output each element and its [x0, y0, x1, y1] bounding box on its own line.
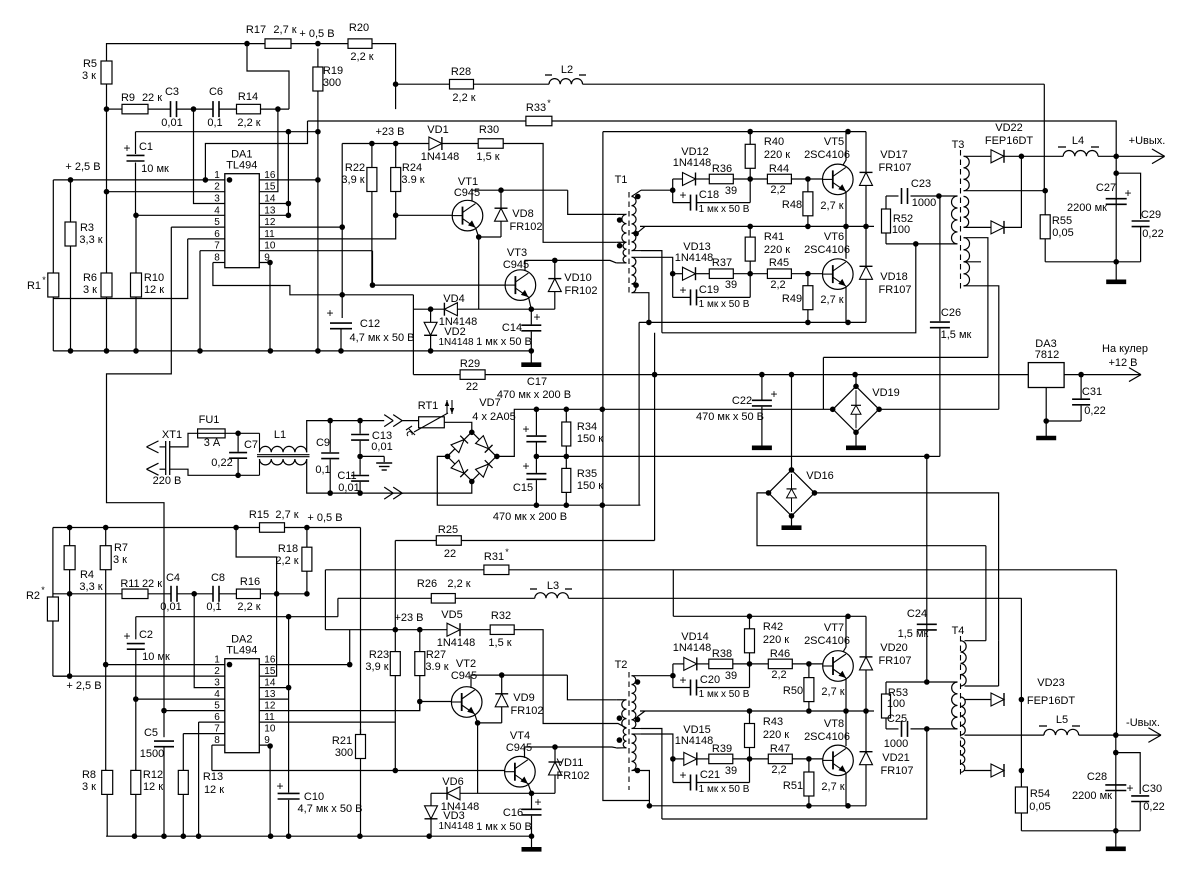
wire pin6 row: [188, 238, 225, 240]
svg-text:R7: R7: [114, 542, 128, 554]
wire VD5-R32: [460, 629, 490, 631]
svg-text:R27: R27: [426, 649, 446, 661]
wire row A to RT1: [330, 420, 384, 422]
svg-text:2,7 к: 2,7 к: [273, 24, 296, 36]
T2 winding left W1: [622, 700, 627, 728]
wire T4 W2 top lead: [965, 699, 992, 701]
junction: [428, 348, 434, 354]
diode VD13: [673, 241, 714, 280]
junction: [68, 348, 74, 354]
resistor R48: [782, 179, 844, 226]
junction: [315, 41, 321, 47]
wire R25 row right: [461, 540, 654, 542]
capacitor C15: [513, 456, 546, 505]
svg-text:0,22: 0,22: [1143, 801, 1164, 813]
diode VD15: [673, 724, 713, 765]
wire T1 W1 top entry: [616, 213, 626, 215]
wire VT1 em down: [478, 237, 480, 309]
capacitor C10: [276, 779, 362, 836]
wire L2 row: [396, 83, 450, 85]
svg-text:R8: R8: [82, 769, 96, 781]
wire C3-C6: [177, 108, 214, 110]
svg-text:R38: R38: [712, 648, 732, 660]
svg-text:3 А: 3 А: [204, 437, 221, 449]
svg-text:R25: R25: [438, 524, 458, 536]
capacitor C6: [207, 86, 223, 129]
svg-text:VD4: VD4: [443, 293, 464, 305]
wire R26 row: [338, 597, 431, 599]
T2 winding left W2: [623, 728, 626, 748]
wire pin10 row: [259, 250, 372, 252]
svg-text:1N4148: 1N4148: [421, 151, 460, 163]
wire L3 out: [568, 597, 1021, 599]
fuse FU1: [198, 414, 226, 449]
svg-text:VD10: VD10: [564, 272, 592, 284]
svg-text:300: 300: [335, 747, 353, 759]
wire L4 out: [1098, 155, 1165, 157]
wire T2 W1 top entry: [616, 699, 626, 701]
junction: [1078, 372, 1084, 378]
wire VD12 junction vert: [672, 179, 674, 203]
T4 right winding W0: [961, 641, 986, 686]
svg-text:3: 3: [214, 678, 220, 689]
svg-text:+ 2,5 В: + 2,5 В: [65, 161, 100, 173]
wire driver bottom rail: [639, 321, 866, 323]
wire R31 to T2 rail: [672, 570, 674, 617]
svg-text:VD19: VD19: [872, 387, 900, 399]
svg-text:220 к: 220 к: [763, 634, 789, 646]
wire R7-R8 junction: [106, 769, 108, 771]
svg-text:12: 12: [264, 217, 276, 228]
wire T2 B bottom path: [641, 729, 662, 820]
svg-text:R42: R42: [763, 621, 783, 633]
wire VD13 junction vert: [672, 274, 674, 298]
wire VD13-R37: [696, 273, 710, 275]
resistor R5: [82, 58, 112, 84]
svg-text:VD6: VD6: [442, 776, 463, 788]
svg-text:3.9 к: 3.9 к: [401, 174, 424, 186]
capacitor C9: [315, 421, 339, 494]
wire T2 C to VD15 junction: [641, 734, 673, 759]
svg-text:VD20: VD20: [880, 642, 908, 654]
wire VT3 collector: [525, 260, 555, 271]
wire R33 row: [308, 121, 1117, 156]
diode VD5: [437, 609, 476, 649]
junction: [1113, 732, 1119, 738]
T1 winding left W2: [623, 242, 626, 263]
capacitor C21: [673, 759, 750, 795]
wire XT1 bottom lead: [160, 468, 166, 470]
svg-text:C945: C945: [451, 670, 477, 682]
junction: [235, 473, 241, 479]
resistor R20: [348, 22, 374, 63]
junction: [132, 833, 138, 839]
wire L5 out: [1079, 734, 1161, 736]
svg-text:FR102: FR102: [509, 221, 542, 233]
svg-text:+: +: [533, 310, 540, 324]
svg-text:8: 8: [214, 253, 220, 264]
svg-text:1N4148: 1N4148: [675, 735, 714, 747]
svg-text:R16: R16: [240, 576, 260, 588]
svg-text:15: 15: [264, 182, 276, 193]
resistor R40: [745, 132, 790, 179]
capacitor C27: [1067, 182, 1131, 214]
resistor R31: [484, 547, 509, 575]
junction: [275, 106, 281, 112]
svg-text:5: 5: [214, 701, 220, 712]
junction: [529, 791, 535, 797]
wire plus rail down: [1115, 156, 1117, 261]
capacitor C5: [140, 711, 174, 837]
junction: [67, 525, 73, 531]
diode VD11: [549, 747, 590, 793]
svg-text:VT5: VT5: [824, 136, 844, 148]
svg-text:C16: C16: [503, 807, 523, 819]
wire T3 W3 top lead: [964, 238, 988, 358]
svg-text:0,1: 0,1: [206, 601, 221, 613]
junction: [845, 803, 851, 809]
capacitor C1: [123, 132, 169, 175]
wire R28-L2: [474, 83, 549, 85]
svg-text:R51: R51: [783, 780, 803, 792]
svg-text:FR107: FR107: [878, 284, 911, 296]
bridge VD16: [769, 470, 834, 516]
junction: [191, 106, 197, 112]
junction: [806, 708, 812, 714]
wire R20 to R28 corner: [372, 44, 396, 110]
wire L1 top out: [307, 421, 331, 453]
svg-text:C945: C945: [506, 742, 532, 754]
junction: [327, 490, 333, 496]
svg-text:R18: R18: [278, 543, 298, 555]
wire bottom ground rail: [106, 835, 531, 837]
wire VD22b out: [1004, 156, 1021, 227]
junction: [747, 224, 753, 230]
junction: [475, 720, 481, 726]
svg-text:+: +: [326, 306, 333, 320]
resistor R3: [65, 180, 103, 351]
T2 phase dot left 2: [617, 737, 623, 743]
svg-text:R43: R43: [763, 716, 783, 728]
capacitor C17: [522, 409, 546, 456]
svg-text:R2: R2: [26, 590, 40, 602]
svg-text:R34: R34: [577, 421, 597, 433]
bridge rectifier VD7: [447, 397, 515, 481]
wire DA3 out: [1064, 374, 1141, 376]
wire R36 out: [733, 178, 767, 180]
wire R16 out: [260, 593, 307, 595]
resistor R35: [562, 456, 603, 505]
svg-text:C25: C25: [887, 713, 907, 725]
svg-text:16: 16: [264, 170, 276, 181]
svg-text:2,2: 2,2: [770, 279, 785, 291]
junction: [133, 213, 139, 219]
svg-text:39: 39: [725, 765, 737, 777]
svg-text:1 мк х 50 В: 1 мк х 50 В: [699, 689, 750, 700]
wire T2 bottom rail: [649, 805, 866, 807]
svg-text:L5: L5: [1056, 714, 1068, 726]
capacitor C7: [211, 433, 258, 475]
wire L2 out: [583, 83, 1045, 85]
svg-text:39: 39: [725, 670, 737, 682]
transistor VT3: [503, 247, 536, 300]
wire RT1 to bridge: [444, 422, 472, 432]
svg-text:2,7 к: 2,7 к: [821, 686, 844, 698]
svg-text:R22: R22: [345, 162, 365, 174]
inductor L2: [545, 64, 586, 84]
junction: [286, 685, 292, 691]
inductor L3: [530, 580, 572, 598]
arrow +U out: [1152, 149, 1165, 156]
junction: [133, 348, 139, 354]
svg-text:12 к: 12 к: [144, 284, 164, 296]
capacitor C2: [123, 617, 170, 699]
wire C2 top row: [136, 616, 338, 618]
svg-text:1N4148: 1N4148: [437, 637, 476, 649]
resistor R55: [1040, 215, 1074, 262]
wire VD19 top: [855, 375, 857, 387]
junction: [304, 591, 310, 597]
wire upper chassis to RT1: [402, 420, 418, 422]
svg-text:2,2 к: 2,2 к: [452, 92, 475, 104]
svg-text:3,9 к: 3,9 к: [365, 661, 388, 673]
wire T2 mid rail: [640, 710, 874, 712]
svg-text:2,2: 2,2: [771, 669, 786, 681]
svg-text:300: 300: [323, 77, 341, 89]
transistor VT1: [452, 176, 483, 231]
svg-text:2,7 к: 2,7 к: [820, 200, 843, 212]
junction: [924, 454, 930, 460]
arrow -U out: [1148, 728, 1161, 735]
ground +U: [1106, 262, 1126, 282]
wire R31 to minus: [1116, 570, 1118, 735]
diode VD17: [860, 132, 912, 227]
wire VT1 collector: [472, 190, 568, 201]
wire VD6 row: [431, 792, 447, 794]
junction: [133, 696, 139, 702]
svg-text:+23 В: +23 В: [375, 126, 404, 138]
junction: [747, 614, 753, 620]
wire VD15-R39: [697, 758, 709, 760]
resistor R30: [476, 124, 503, 163]
T3 left winding: [952, 196, 958, 244]
wire R14 to pin15: [259, 109, 278, 192]
svg-text:0,1: 0,1: [315, 464, 330, 476]
junction: [181, 833, 187, 839]
svg-text:R47: R47: [770, 743, 790, 755]
svg-text:1 мк х 50 В: 1 мк х 50 В: [476, 821, 532, 833]
svg-text:16: 16: [264, 655, 276, 666]
junction: [227, 177, 233, 183]
resistor R16: [236, 576, 260, 613]
T1 winding left W1: [622, 214, 627, 242]
resistor R6: [83, 272, 112, 351]
junction: [1043, 418, 1049, 424]
wire ground rail: [53, 350, 531, 352]
wire R29 row left: [413, 374, 460, 376]
wire VD4 row: [413, 308, 444, 310]
wire VD16 left: [757, 493, 986, 546]
wire pin16 row: [259, 179, 318, 181]
wire VT2 col to T2: [567, 675, 616, 700]
transistor VT6: [804, 231, 853, 289]
wire VT2 em down: [477, 723, 479, 793]
junction: [393, 768, 399, 774]
junction: [268, 833, 274, 839]
T1 phase dot: [635, 194, 641, 200]
svg-text:4: 4: [214, 689, 220, 700]
capacitor C8: [206, 572, 225, 613]
svg-text:C21: C21: [700, 769, 720, 781]
junction: [843, 224, 849, 230]
wire VT1 base row: [396, 214, 453, 216]
svg-text:VD21: VD21: [882, 752, 910, 764]
junction: [494, 454, 500, 460]
svg-text:R10: R10: [144, 272, 164, 284]
svg-text:R28: R28: [451, 66, 471, 78]
wire minus rail down: [1115, 735, 1117, 831]
capacitor C28: [1072, 771, 1133, 802]
wire DA3 gnd: [1046, 388, 1081, 422]
junction: [104, 189, 110, 195]
wire VT3 base row: [373, 284, 506, 286]
wire R15 out: [285, 527, 361, 529]
wire VD1-R30: [442, 143, 478, 145]
junction: [428, 306, 434, 312]
wire pin14b row: [259, 687, 288, 689]
svg-text:1N4148: 1N4148: [438, 821, 473, 832]
junction: [1113, 828, 1119, 834]
svg-text:FEP16DT: FEP16DT: [985, 135, 1034, 147]
wire R55 feed: [1044, 191, 1046, 215]
capacitor C26: [927, 196, 972, 456]
wire pin5b row: [164, 710, 225, 712]
resistor R52: [882, 196, 914, 244]
svg-text:RT1: RT1: [418, 400, 439, 412]
svg-text:C27: C27: [1096, 182, 1116, 194]
wire T1 B bottom path: [641, 251, 662, 333]
wire R25 row: [395, 540, 436, 542]
transformer T1 core: [628, 192, 630, 294]
wire R25 left leg: [394, 541, 396, 630]
junction: [304, 525, 310, 531]
wire C29 branch: [1116, 173, 1140, 219]
junction: [670, 673, 676, 679]
resistor R28: [450, 66, 476, 104]
junction: [747, 129, 753, 135]
svg-text:+: +: [522, 422, 529, 436]
wire pin14b vertical: [288, 617, 290, 793]
svg-text:0,05: 0,05: [1029, 801, 1050, 813]
wire VT3 col to T1: [555, 260, 617, 263]
svg-text:R50: R50: [783, 685, 803, 697]
resistor R53: [882, 682, 909, 729]
wire L1 bottom out: [307, 459, 331, 493]
svg-text:0,22: 0,22: [211, 457, 232, 469]
wire VT5 collector: [843, 132, 846, 165]
resistor R25: [436, 524, 461, 560]
svg-text:4: 4: [214, 205, 220, 216]
svg-text:470 мк х 200 В: 470 мк х 200 В: [493, 511, 567, 523]
wire plus bottom rail: [1045, 261, 1140, 263]
svg-text:1N4148: 1N4148: [673, 642, 712, 654]
wire VT1 emitter junction: [476, 228, 502, 237]
svg-text:1 мк х 50 В: 1 мк х 50 В: [699, 299, 750, 310]
junction: [876, 407, 882, 413]
svg-text:2,2 к: 2,2 к: [237, 601, 260, 613]
svg-text:2,2 к: 2,2 к: [275, 555, 298, 567]
junction: [600, 407, 606, 413]
junction: [68, 177, 74, 183]
wire pin10 to base row: [372, 251, 374, 285]
svg-text:R23: R23: [369, 649, 389, 661]
svg-text:2SC4106: 2SC4106: [804, 731, 850, 743]
svg-text:На кулер: На кулер: [1102, 343, 1148, 355]
resistor R32: [488, 610, 514, 649]
wire C15 riser: [638, 322, 640, 505]
svg-text:13: 13: [264, 205, 276, 216]
ground -U: [1106, 831, 1126, 849]
junction: [534, 454, 540, 460]
diode VD1: [421, 124, 460, 163]
transistor VT2: [451, 658, 482, 717]
svg-text:2,7 к: 2,7 к: [820, 294, 843, 306]
junction: [805, 224, 811, 230]
svg-text:2,7 к: 2,7 к: [821, 781, 844, 793]
wire pin11 row: [259, 215, 395, 239]
svg-text:3 к: 3 к: [82, 781, 96, 793]
svg-text:VT3: VT3: [507, 247, 527, 259]
resistor R19: [313, 49, 343, 180]
svg-text:VT7: VT7: [824, 622, 844, 634]
svg-text:+: +: [123, 141, 130, 155]
T1 winding right B: [632, 233, 642, 251]
junction: [339, 292, 345, 298]
op-amp U DA2 TL494: [225, 659, 259, 753]
wire pin1b row: [106, 664, 225, 666]
wire T2 A to VD14 junction: [641, 675, 673, 677]
svg-text:10 мк: 10 мк: [141, 163, 169, 175]
wire R38 out: [733, 663, 769, 665]
diode VD22 top: [985, 122, 1034, 163]
T2 winding right C: [632, 734, 642, 771]
resistor R17: [246, 24, 297, 48]
junction: [1019, 154, 1025, 160]
wire pin2 row: [107, 191, 225, 193]
svg-text:3,3 к: 3,3 к: [79, 234, 102, 246]
svg-text:C31: C31: [1082, 386, 1102, 398]
junction: [233, 525, 239, 531]
resistor R27: [415, 630, 449, 676]
wire R10 line: [135, 215, 137, 273]
svg-text:+: +: [1124, 186, 1131, 200]
resistor R24: [391, 144, 425, 192]
junction: [789, 372, 795, 378]
junction: [104, 348, 110, 354]
svg-text:R49: R49: [782, 293, 802, 305]
resistor R45: [767, 257, 791, 291]
svg-text:7812: 7812: [1035, 349, 1059, 361]
svg-text:VD16: VD16: [806, 470, 834, 482]
svg-text:R24: R24: [402, 162, 422, 174]
chassis mark lower: [384, 487, 393, 493]
wire VD4-out: [457, 308, 554, 310]
svg-text:13: 13: [264, 689, 276, 700]
junction: [274, 591, 280, 597]
junction: [1113, 154, 1119, 160]
svg-text:+: +: [679, 673, 686, 687]
svg-text:7: 7: [214, 724, 220, 735]
